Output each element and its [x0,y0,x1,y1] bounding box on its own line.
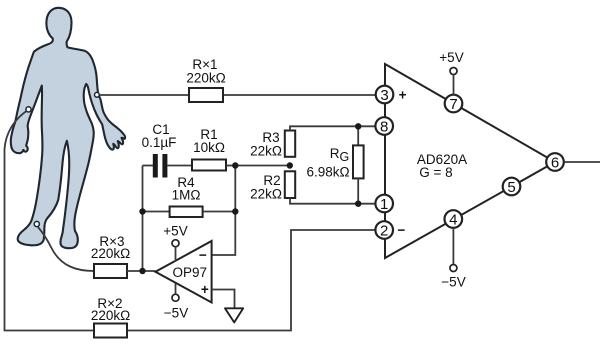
svg-text:8: 8 [380,118,388,135]
junction: R1 right node [232,162,238,168]
svg-text:6: 6 [551,154,559,171]
svg-text:6.98kΩ: 6.98kΩ [306,165,349,180]
resistor Rx2 [91,296,130,338]
wire: ankle electrode to Rx3 [38,227,94,271]
wire: left-arm electrode down left side to bottom [5,111,95,331]
resistor Rx1 [186,57,225,102]
svg-text:+5V: +5V [163,224,187,239]
svg-text:5: 5 [507,179,515,196]
svg-text:G = 8: G = 8 [419,165,452,180]
junction: R4 right node [232,208,238,214]
svg-text:+: + [399,88,407,103]
pin 1 [375,195,393,213]
svg-text:10kΩ: 10kΩ [193,140,225,155]
svg-text:4: 4 [449,211,457,228]
+5V supply terminal for AD620A pin 7 [439,50,463,95]
pin 4 [445,210,463,228]
wire: feedback vertical node to OP97 inverting input [212,166,236,256]
wire: left vertical from output node to C1/R4 [142,166,144,272]
svg-text:−: − [199,248,207,263]
junction: OP97 output node [139,268,145,274]
wire: Rx3 to OP97 output node [127,270,155,272]
electrode on left ankle [34,221,39,226]
junction: RG top node [355,123,361,129]
resistor R3 [250,130,295,159]
-5V supply terminal for AD620A pin 4 [441,228,465,290]
svg-text:−: − [397,223,405,238]
wire: C1 left lead [143,165,154,167]
svg-text:0.1µF: 0.1µF [142,135,177,150]
wire: OP97 non-inverting input to ground [212,290,235,309]
svg-text:1MΩ: 1MΩ [172,188,201,203]
junction: RG bottom node [355,201,361,207]
svg-text:+5V: +5V [439,50,463,65]
svg-text:OP97: OP97 [173,265,208,280]
svg-text:3: 3 [380,87,388,104]
wire: RG bottom lead [357,178,359,203]
pin 3 [376,86,394,104]
resistor R1 [192,127,226,171]
resistor R4 [170,175,203,217]
svg-text:220kΩ: 220kΩ [186,71,225,86]
svg-text:220kΩ: 220kΩ [91,246,130,261]
pin 7 [445,95,463,113]
svg-text:2: 2 [380,222,388,239]
svg-text:−5V: −5V [441,275,465,290]
patient body silhouette [11,8,125,248]
junction: R3/R2 midpoint [287,162,293,168]
-5V supply terminal for OP97 [164,284,188,321]
wire: pin 6 output to right edge [565,161,600,163]
+5V supply terminal for OP97 [163,224,187,262]
svg-text:RG: RG [330,146,349,164]
wire: R2 bottom to pin 1 [290,198,376,204]
svg-text:+: + [201,282,209,297]
pin 2 [375,221,393,239]
wire: Rx1 to pin 3 [223,94,376,96]
op-amp U1 OP97 triangle [155,241,211,303]
resistor R2 [250,171,295,201]
svg-text:220kΩ: 220kΩ [91,308,130,323]
wire: RG top lead [357,126,359,145]
op-amp U2 AD620A triangle [385,64,555,258]
capacitor C1 [142,122,177,178]
svg-text:22kΩ: 22kΩ [250,144,282,159]
wire: node to R3/R2 midpoint [235,165,289,167]
resistor RG [306,145,363,179]
pin 5 [503,178,521,196]
junction: R4 left node [139,208,145,214]
svg-text:−5V: −5V [164,306,188,321]
wire: C1 to R1 [168,165,193,167]
svg-text:7: 7 [449,96,457,113]
wire: right-arm electrode to Rx1 [100,94,189,96]
resistor Rx3 [91,234,130,278]
pin 6 [546,153,564,171]
wire: R4 right lead [203,211,236,213]
electrode on left arm [26,107,31,112]
wire: bottom run Rx2 to corner and up to pin 2 [127,230,376,331]
wire: R4 left lead [143,211,170,213]
svg-text:22kΩ: 22kΩ [250,187,282,202]
svg-text:1: 1 [380,196,388,213]
ground [225,308,243,322]
wire: R3 top to pin 8 [290,126,376,130]
wire: R1 right to node [226,165,235,167]
pin 8 [375,117,393,135]
electrode on right arm [95,92,100,97]
